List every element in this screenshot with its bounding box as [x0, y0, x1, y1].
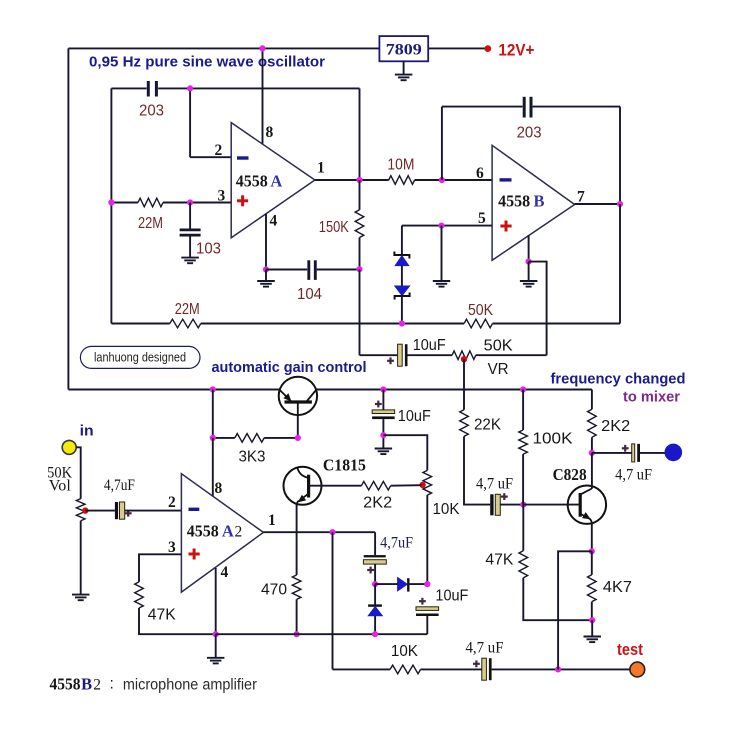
ground under 4558B	[520, 281, 538, 287]
resistor 150K	[355, 210, 364, 238]
wire bottom feedback mid	[201, 323, 464, 325]
svg-text:50K: 50K	[484, 338, 514, 355]
wire pin4 stem	[265, 214, 267, 270]
wire 22K down	[464, 436, 490, 504]
wire diode2 bottom lead	[374, 616, 376, 634]
capacitor 4,7uF (test out)	[482, 658, 492, 680]
potentiometer 10K element	[423, 470, 432, 495]
wire 4K7 bottom lead	[591, 602, 593, 621]
node C828 emitter	[589, 548, 595, 554]
wire VR line left	[360, 354, 398, 356]
wire 100K bottom lead	[522, 454, 524, 505]
node 10K pot wiper	[419, 482, 425, 488]
wire 103 stem bottom	[189, 236, 191, 257]
wire cap to diode node	[374, 564, 376, 584]
node pin6 / feedback	[439, 177, 445, 183]
wire VR right	[476, 354, 547, 356]
svg-text:100K: 100K	[533, 431, 574, 448]
svg-text:10uF: 10uF	[413, 337, 446, 354]
svg-text:2: 2	[215, 142, 223, 159]
wire cap to test jack	[492, 668, 630, 670]
wire 3K3 left lead	[213, 437, 235, 439]
svg-text:2: 2	[235, 524, 243, 541]
svg-text:6: 6	[476, 165, 484, 182]
wire wiper to cap	[85, 510, 115, 512]
node Vol wiper	[82, 507, 88, 513]
capacitor 104	[309, 260, 316, 280]
wire 4558B feedback top left	[442, 106, 523, 108]
transistor Q3 C828 (NPN)	[568, 486, 606, 525]
svg-text:3: 3	[218, 188, 226, 205]
capacitor 4,7uF (C828 coupling)	[490, 494, 500, 515]
capacitor 10uF (detector)	[416, 607, 439, 616]
node 4558B output	[617, 201, 623, 207]
polarity +	[375, 401, 382, 408]
polarity +	[473, 660, 480, 667]
wire 470 bottom	[296, 599, 298, 634]
wire 10uF to rail corner	[426, 616, 428, 634]
svg-text:2: 2	[93, 677, 101, 694]
svg-text:4558: 4558	[498, 192, 530, 211]
wire pin2 branch vertical	[189, 88, 191, 157]
wire cathode lead	[408, 583, 427, 585]
node pin3 / 103	[187, 199, 193, 205]
wire anode lead	[375, 583, 398, 585]
wire cap to VR	[408, 354, 453, 356]
polarity +	[387, 357, 394, 364]
jack mixer out (blue)	[665, 444, 682, 461]
wire diode2 top lead	[374, 584, 376, 605]
diode D4	[368, 606, 382, 616]
diode D3	[398, 578, 409, 592]
wire pin2 into op-amp	[190, 156, 231, 158]
node VR wiper	[461, 356, 467, 362]
plus input symbol 4558A	[237, 195, 248, 206]
ground under 103	[181, 258, 199, 264]
wire VR wiper down	[463, 359, 465, 410]
wire zener top lead	[401, 226, 403, 255]
voltage regulator 7809	[379, 36, 428, 61]
wire pin4 ground stem	[265, 270, 267, 282]
capacitor 203 (4558A feedback)	[148, 81, 156, 97]
svg-text:4558: 4558	[50, 675, 81, 694]
wire output to 10M	[315, 179, 389, 181]
capacitor 4,7 uF (mixer out)	[632, 444, 640, 462]
svg-text:4558: 4558	[236, 172, 268, 191]
wire pin1 A2 output	[263, 531, 375, 533]
svg-text:1: 1	[268, 512, 276, 529]
wire pin5 line	[402, 225, 492, 227]
plus input symbol 4558A2	[189, 549, 200, 560]
wire pin8 stem 4558A from rail	[262, 48, 264, 144]
wire output vertical to VR line	[359, 270, 361, 356]
wire test branch vertical	[332, 532, 334, 669]
svg-text:10uF: 10uF	[398, 408, 431, 425]
resistor 100K	[519, 430, 528, 454]
node pin4 A2	[213, 631, 219, 637]
capacitor 4,7uF (mic input)	[115, 502, 125, 519]
ground under 4K7	[584, 637, 602, 643]
resistor 10M	[389, 176, 415, 185]
wire Q2 emitter down	[296, 506, 298, 576]
minus input symbol 4558A	[237, 156, 249, 159]
wire inner box top (feedback to 203)	[111, 87, 146, 89]
svg-text:10K: 10K	[391, 643, 419, 660]
jack mic input (yellow)	[62, 440, 76, 454]
node 3K3 / collector	[295, 435, 301, 441]
wire zener bottom lead	[401, 296, 403, 324]
svg-text:47K: 47K	[148, 607, 177, 624]
node C828 collector	[589, 450, 595, 456]
svg-text:B: B	[81, 675, 92, 694]
svg-text:4,7 uF: 4,7 uF	[476, 476, 513, 493]
svg-text:7809: 7809	[386, 42, 422, 59]
resistor 2K2 (base)	[361, 481, 390, 490]
wire 10M to pin6	[415, 179, 493, 181]
minus input symbol 4558B	[500, 178, 512, 181]
node C828 base	[520, 502, 526, 508]
wire feedback right vertical	[619, 107, 621, 204]
wire top supply rail left	[68, 47, 379, 49]
svg-text:203: 203	[517, 125, 542, 142]
svg-text::: :	[110, 676, 114, 693]
node 4K7 bottom	[589, 617, 595, 623]
svg-text:VR: VR	[488, 361, 509, 378]
wire 4K7 ground stem	[591, 620, 593, 636]
wire 103 stem top	[189, 203, 191, 229]
node rail / 100K	[520, 386, 526, 392]
wire 10uF bottom stem	[382, 419, 384, 447]
node rail / pin8	[259, 45, 265, 51]
wire pin5 ground stem	[441, 226, 443, 281]
wire Q1 collector	[297, 414, 299, 438]
node rail / 10uF	[380, 386, 386, 392]
wire 10K to cap	[421, 668, 482, 670]
node 4558B lower pin	[526, 259, 532, 265]
wire inner box left edge	[110, 88, 112, 323]
capacitor 4,7uF (AGC sense)	[363, 555, 386, 564]
svg-text:10M: 10M	[387, 157, 414, 174]
svg-text:C828: C828	[553, 465, 587, 484]
wire 4558B output	[575, 203, 620, 205]
svg-text:3K3: 3K3	[239, 449, 266, 466]
resistor 50K	[464, 319, 492, 328]
svg-text:22M: 22M	[175, 301, 200, 318]
svg-text:150K: 150K	[319, 219, 350, 236]
polarity +	[125, 510, 132, 517]
zener diode D2 (lower)	[395, 286, 410, 300]
svg-text:2K2: 2K2	[601, 418, 630, 435]
wire 3K3 right lead	[264, 437, 298, 439]
node 104 / 150K	[356, 266, 362, 272]
wire between zeners	[401, 266, 403, 286]
resistor 22M (input)	[138, 198, 163, 207]
ground under 10uF	[375, 449, 393, 455]
wire pin4 ground stem	[215, 634, 217, 658]
svg-text:4: 4	[270, 213, 278, 230]
node rail / pin8 A2	[210, 386, 216, 392]
wire 4558B feedback top right	[533, 106, 620, 108]
svg-text:22K: 22K	[474, 417, 502, 434]
svg-text:4,7 uF: 4,7 uF	[615, 467, 652, 484]
wire 47K bottom	[523, 578, 592, 620]
resistor 2K2 (collector)	[588, 409, 597, 437]
wire 4558B feedback left vertical	[441, 107, 443, 180]
resistor 470	[292, 575, 301, 599]
transistor Q1 AGC (PNP)	[279, 377, 317, 415]
resistor 4K7	[588, 575, 597, 602]
wire cap to base node	[500, 504, 523, 506]
wire 104 to output vertical	[317, 269, 360, 271]
wire cap to blue jack	[640, 452, 665, 454]
resistor 22K	[460, 410, 469, 437]
wire pin8 stem lower	[212, 438, 214, 497]
wire output vertical upper	[359, 88, 361, 180]
wire 47K to bottom rail	[139, 608, 216, 634]
wire pin8 stem upper	[212, 390, 214, 438]
polarity +	[622, 445, 629, 452]
wire 150K bottom lead	[359, 238, 361, 270]
capacitor 103	[180, 230, 201, 235]
wire collector to out cap	[592, 452, 632, 454]
polarity +	[501, 493, 508, 500]
wire pin3 A2	[139, 554, 181, 582]
svg-text:104: 104	[297, 286, 322, 303]
ground under pin5 line	[433, 281, 450, 287]
wire 2K2 bottom lead	[591, 437, 593, 453]
svg-text:10uF: 10uF	[435, 588, 468, 605]
wire AGC rail right	[317, 389, 592, 391]
resistor 47K (bias)	[135, 582, 144, 608]
transistor Q2 C1815 (NPN)	[284, 467, 322, 506]
svg-text:to mixer: to mixer	[623, 389, 680, 406]
svg-text:22M: 22M	[138, 215, 163, 232]
pill lanhuong designed	[80, 346, 200, 368]
wire Q3 collector lead	[591, 453, 593, 489]
svg-text:0,95 Hz pure sine wave oscilla: 0,95 Hz pure sine wave oscillator	[89, 54, 325, 71]
wire Vol pot bottom	[80, 521, 82, 595]
ground under 7809	[395, 75, 413, 81]
node 470 / bottom rail	[294, 631, 300, 637]
svg-text:lanhuong designed: lanhuong designed	[94, 351, 186, 365]
node 4558A output	[356, 177, 362, 183]
wire pin3 line left	[111, 202, 138, 204]
wire output down right side	[619, 204, 621, 324]
op-amp U2A 4558A2	[181, 474, 263, 592]
plus input symbol 4558B	[500, 221, 511, 232]
svg-text:2K2: 2K2	[363, 495, 392, 512]
wire jack to pot top	[76, 447, 81, 498]
svg-text:203: 203	[139, 103, 164, 120]
svg-text:4558: 4558	[187, 522, 219, 541]
wire pin4 to 104	[266, 269, 307, 271]
svg-text:4,7uF: 4,7uF	[104, 477, 135, 494]
wire bottom feedback line left	[111, 323, 169, 325]
svg-text:4: 4	[221, 564, 229, 581]
wire lower pin ground stem	[528, 262, 530, 281]
wire bottom feedback right	[493, 323, 621, 325]
node 12V+ supply dot	[484, 45, 491, 52]
wire test line left	[333, 668, 391, 670]
svg-text:4,7 uF: 4,7 uF	[466, 640, 504, 657]
wire 100K top lead	[522, 390, 524, 431]
svg-text:8: 8	[215, 480, 223, 497]
node feedback / pin2	[187, 85, 193, 91]
potentiometer 50K VR element	[452, 351, 476, 360]
svg-text:A: A	[270, 172, 282, 191]
minus input symbol 4558A2	[189, 508, 200, 511]
wire Q2 base to 2K2	[310, 485, 362, 487]
svg-text:470: 470	[261, 582, 287, 599]
svg-text:C1815: C1815	[323, 456, 366, 475]
wire 4558B lower pin stem	[528, 235, 530, 262]
wire 10K pot bottom	[426, 495, 428, 584]
wire pin4 A2 stem	[215, 568, 217, 634]
zener diode D1 (upper)	[394, 252, 409, 266]
node test / emitter feedback	[555, 666, 561, 672]
svg-text:12V+: 12V+	[498, 42, 534, 60]
wire Q3 emitter lead	[591, 523, 593, 551]
wire cap to pin2 A2	[125, 510, 182, 512]
potentiometer 50K Vol element	[76, 499, 85, 521]
resistor 47K (C828)	[519, 551, 528, 578]
svg-text:10K: 10K	[433, 501, 461, 518]
svg-text:50K: 50K	[468, 302, 494, 319]
polarity +	[419, 598, 426, 605]
capacitor 10uF (AGC filter)	[372, 410, 395, 419]
wire emitter feedback	[558, 551, 592, 669]
wire 47K top lead	[522, 505, 524, 551]
node pin4	[263, 266, 269, 272]
wire 10uF node to 10K pot top	[383, 435, 427, 470]
ground under pin4 4558A	[257, 281, 275, 287]
wire 4K7 top lead	[591, 551, 593, 575]
op-amp U1A 4558A	[231, 123, 315, 238]
svg-text:automatic gain control: automatic gain control	[212, 359, 367, 376]
capacitor 10uF (VR line)	[398, 344, 408, 366]
ground under pin4 A2	[207, 658, 225, 664]
node zener / feedback	[399, 320, 405, 326]
node output / test branch	[329, 529, 335, 535]
wire 10uF top stem	[382, 390, 384, 411]
svg-text:7: 7	[577, 189, 585, 206]
node left 22M	[108, 199, 114, 205]
wire AGC rail left	[68, 389, 279, 391]
node 3K3 / pin8	[210, 435, 216, 441]
wire pin3 line right	[163, 202, 231, 204]
node pin5 ground tap	[438, 223, 444, 229]
svg-text:8: 8	[266, 124, 274, 141]
node diode2 / rail	[372, 631, 378, 637]
svg-text:103: 103	[196, 241, 221, 258]
svg-text:5: 5	[478, 210, 486, 227]
svg-text:B: B	[534, 192, 545, 211]
wire 150K top lead	[359, 180, 361, 210]
svg-text:in: in	[80, 423, 94, 440]
svg-text:4K7: 4K7	[603, 579, 632, 596]
ground under Vol pot	[72, 595, 90, 601]
wire inner box top right of 203	[158, 87, 359, 89]
svg-text:microphone amplifier: microphone amplifier	[123, 677, 257, 694]
resistor 10K (test)	[390, 665, 420, 674]
svg-text:A: A	[222, 522, 234, 541]
wire bottom rail	[216, 633, 428, 635]
node diode anode	[372, 581, 378, 587]
resistor 3K3	[235, 434, 264, 443]
svg-text:2: 2	[168, 494, 176, 511]
wire 4,7uF stem	[374, 532, 376, 555]
jack test (orange)	[630, 662, 645, 677]
svg-text:47K: 47K	[485, 552, 514, 569]
wire outer left edge	[67, 48, 69, 389]
wire lower pin to right vertical	[529, 262, 547, 356]
svg-text:frequency changed: frequency changed	[551, 371, 686, 388]
node 10uF / pot feed	[380, 432, 386, 438]
svg-text:1: 1	[317, 160, 325, 177]
wire 7809 output to 12V+	[428, 47, 485, 49]
capacitor 203 (4558B feedback)	[524, 97, 531, 118]
svg-text:Vol: Vol	[49, 478, 71, 495]
svg-text:4,7uF: 4,7uF	[380, 535, 413, 552]
wire Q3 base lead	[523, 504, 578, 506]
resistor 22M (feedback)	[170, 319, 201, 328]
wire 2K2 to pot wiper	[391, 484, 422, 487]
wire 2K2 top lead	[591, 390, 593, 410]
node diode / 10uF	[424, 581, 430, 587]
wire 7809 ground stem	[403, 61, 405, 74]
op-amp U1B 4558B	[492, 145, 574, 260]
polarity +	[367, 567, 374, 574]
svg-text:test: test	[617, 641, 643, 659]
